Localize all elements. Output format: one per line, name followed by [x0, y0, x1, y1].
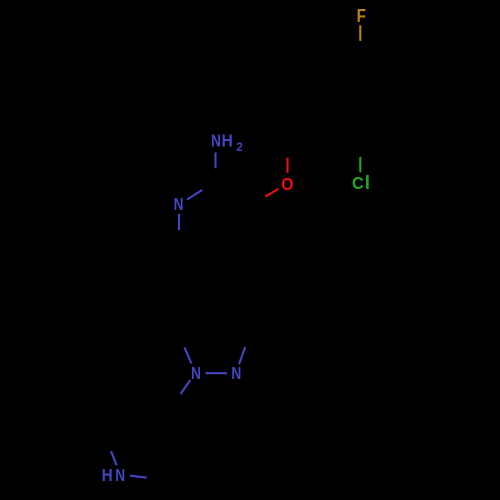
- svg-text:N: N: [174, 195, 184, 214]
- svg-text:N: N: [191, 364, 201, 383]
- svg-text:F: F: [357, 6, 366, 27]
- svg-text:2: 2: [236, 141, 242, 154]
- svg-text:N: N: [115, 466, 125, 485]
- svg-text:O: O: [281, 174, 293, 194]
- svg-text:C: C: [352, 174, 364, 194]
- svg-text:l: l: [365, 173, 370, 194]
- svg-text:N: N: [211, 132, 221, 151]
- svg-text:H: H: [102, 466, 113, 485]
- svg-text:H: H: [222, 131, 233, 151]
- svg-text:N: N: [231, 364, 241, 383]
